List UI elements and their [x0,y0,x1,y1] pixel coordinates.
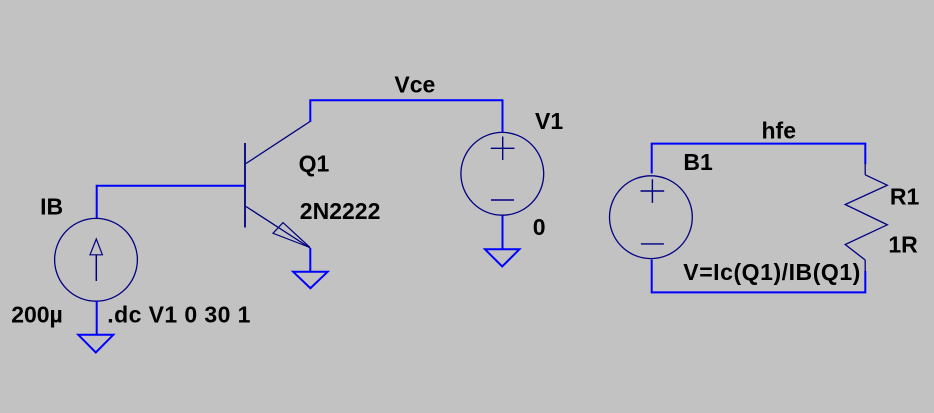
bsource B1 [610,176,693,259]
current source IB [55,218,138,301]
ground [293,272,327,288]
svg-text:V1: V1 [535,108,563,134]
svg-text:hfe: hfe [762,118,797,144]
svg-text:1R: 1R [888,232,918,258]
wire [96,301,98,335]
ground [485,249,519,266]
transistor Q1 [245,122,310,249]
svg-text:2N2222: 2N2222 [300,198,381,224]
svg-text:0: 0 [533,214,546,240]
svg-text:200µ: 200µ [11,301,63,327]
wire [652,260,866,293]
svg-text:IB: IB [40,193,63,219]
svg-text:R1: R1 [890,183,920,209]
wire [502,216,504,250]
voltage source V1 [461,132,544,215]
wire [97,186,246,219]
svg-text:Vce: Vce [394,71,435,97]
svg-text:.dc V1 0 30 1: .dc V1 0 30 1 [107,301,251,327]
wire [652,144,866,174]
svg-text:B1: B1 [683,149,713,175]
wire [310,100,502,132]
svg-text:V=Ic(Q1)/IB(Q1): V=Ic(Q1)/IB(Q1) [683,259,861,285]
svg-text:Q1: Q1 [299,151,330,177]
resistor R1 [845,163,887,272]
wire [309,248,311,272]
ground [78,335,113,353]
